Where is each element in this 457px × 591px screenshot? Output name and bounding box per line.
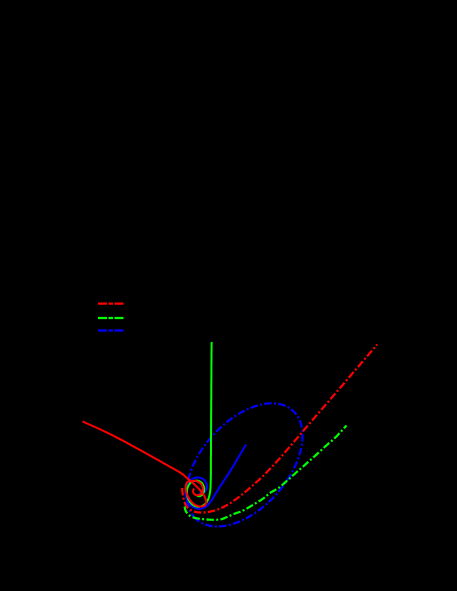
green dash-dot trajectory [185, 426, 347, 520]
green solid trajectory spiral [187, 342, 212, 507]
legend red dash-dot sample [98, 303, 124, 305]
red dash-dot trajectory [182, 344, 377, 512]
legend blue dash-dot sample [98, 329, 124, 331]
red solid trajectory spiral [83, 421, 207, 506]
blue solid trajectory spiral [186, 445, 247, 509]
legend green dash-dot sample [98, 317, 124, 319]
blue dash-dot ellipse trajectory [187, 403, 303, 526]
